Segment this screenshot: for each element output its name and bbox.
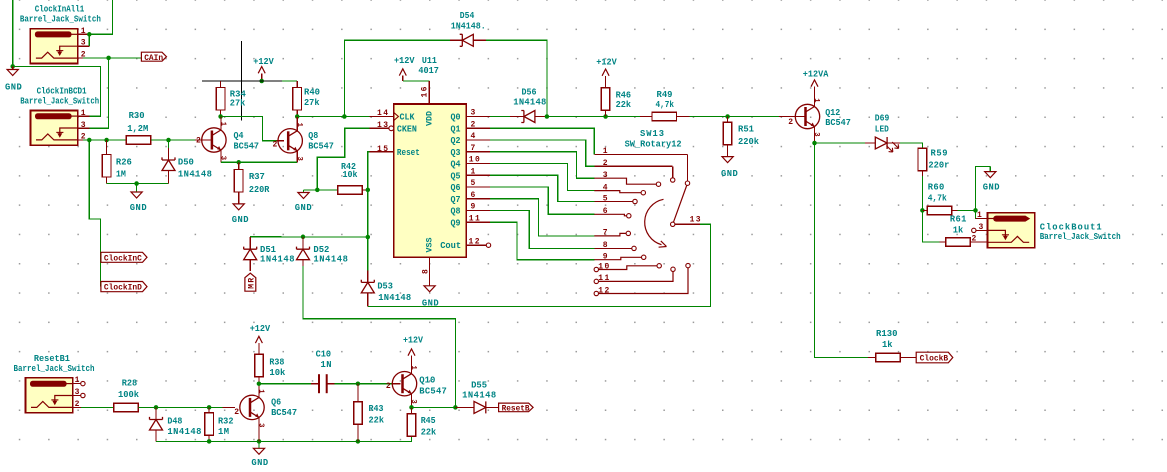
svg-text:R51: R51 — [738, 125, 754, 135]
svg-text:+12V: +12V — [253, 57, 274, 67]
U11 pin 8 VSS — [429, 257, 431, 286]
wire Q9 to SW13 position 9 — [490, 222, 594, 259]
junction R32 top — [207, 405, 212, 410]
svg-text:1M: 1M — [116, 170, 126, 180]
svg-text:VDD: VDD — [425, 111, 435, 126]
resistor R28 100k — [114, 403, 139, 412]
junction Reset/D51/D52 net — [366, 235, 371, 240]
wire LED to R59 — [900, 143, 922, 148]
svg-text:Q8: Q8 — [308, 131, 318, 141]
svg-text:3: 3 — [409, 399, 417, 403]
junction R43 top — [356, 381, 361, 386]
svg-text:D48: D48 — [167, 416, 182, 426]
svg-text:15: 15 — [377, 145, 388, 154]
wire Q4 to SW13 position 4 — [490, 164, 594, 191]
wire up to GND — [976, 166, 991, 210]
resistor R51 220k — [727, 117, 729, 123]
svg-text:1: 1 — [409, 366, 417, 371]
svg-text:MR: MR — [247, 278, 256, 289]
transistor Q10 BC547 — [392, 372, 416, 396]
svg-text:3: 3 — [75, 388, 80, 397]
SW13 contact 6 — [627, 214, 631, 218]
connector ClockInBCD1 Barrel_Jack_Switch J2 — [30, 110, 77, 145]
svg-text:BC547: BC547 — [308, 141, 334, 151]
resistor R60 4,7k — [922, 209, 927, 211]
junction bus Q6 emitter — [257, 439, 262, 444]
connector ClockBout1 Barrel_Jack_Switch J3 — [987, 213, 1034, 248]
junction pin2 b — [104, 138, 109, 143]
wire pin1 riser to top edge — [89, 0, 112, 34]
svg-text:10: 10 — [469, 156, 480, 165]
svg-text:1: 1 — [603, 147, 608, 156]
svg-text:R30: R30 — [129, 111, 145, 121]
junction Q6 collector / C10 — [257, 381, 262, 386]
svg-text:1: 1 — [75, 376, 80, 385]
diode D52 1N4148 — [302, 237, 304, 249]
connector ClockInAll1 Barrel_Jack_Switch J1 — [30, 29, 77, 64]
svg-text:ClockInC: ClockInC — [104, 253, 142, 263]
svg-text:9: 9 — [603, 253, 608, 262]
svg-text:8: 8 — [422, 269, 431, 274]
svg-text:27k: 27k — [304, 98, 320, 108]
svg-text:Barrel_Jack_Switch: Barrel_Jack_Switch — [1040, 232, 1121, 242]
svg-text:R61: R61 — [950, 215, 967, 225]
svg-text:1: 1 — [257, 389, 265, 394]
SW13 pin 2 lead — [594, 165, 672, 167]
svg-text:C10: C10 — [316, 350, 332, 360]
SW13 contact 7 — [626, 231, 630, 235]
ClockInBCD1 pin 2 — [78, 139, 83, 141]
resistor R40 27k — [296, 81, 298, 88]
svg-text:Reset: Reset — [397, 148, 420, 158]
svg-text:BC547: BC547 — [419, 387, 447, 397]
U11 pin 9 Q8 — [466, 210, 490, 212]
ground symbol R26/D50 — [136, 184, 138, 193]
global label ClockB — [916, 352, 953, 363]
wire Q8 to SW13 position 8 — [490, 211, 594, 249]
svg-text:3: 3 — [295, 157, 303, 161]
svg-text:Q2: Q2 — [451, 136, 461, 146]
svg-text:100k: 100k — [118, 390, 140, 400]
junction bus R32 — [207, 439, 212, 444]
svg-text:Q6: Q6 — [451, 183, 461, 193]
svg-text:Q3: Q3 — [451, 148, 461, 158]
resistor R30 1,2M — [126, 136, 151, 145]
svg-text:1: 1 — [977, 211, 982, 220]
ResetB1 pin 1 — [73, 383, 81, 385]
svg-text:SW_Rotary12: SW_Rotary12 — [625, 140, 682, 150]
wire R59 to R60 — [921, 176, 923, 210]
svg-text:11: 11 — [598, 274, 609, 283]
svg-text:ClockBout1: ClockBout1 — [1040, 223, 1102, 233]
svg-text:D69: D69 — [875, 114, 890, 124]
svg-text:GND: GND — [232, 215, 249, 225]
wire Q12 emitter down to R130 — [815, 143, 869, 358]
diode D50 1N4148 — [168, 140, 170, 148]
svg-text:Q4: Q4 — [234, 131, 245, 141]
resistor R38 10k — [255, 354, 264, 377]
svg-text:1N4148: 1N4148 — [167, 427, 201, 437]
svg-text:Q10: Q10 — [419, 376, 435, 386]
svg-text:Q4: Q4 — [451, 160, 462, 170]
SW13 contact 8 — [632, 246, 636, 250]
wire R46 to R49 — [606, 116, 640, 118]
svg-text:R46: R46 — [616, 90, 632, 100]
svg-text:ClockInBCD1: ClockInBCD1 — [37, 86, 87, 96]
resistor R45 22k — [411, 407, 413, 414]
junction R60 right — [973, 208, 978, 213]
svg-text:4: 4 — [603, 183, 608, 192]
wire bottom bus — [156, 436, 412, 441]
U11 pin 16 VDD — [428, 81, 430, 104]
svg-text:1N4148: 1N4148 — [378, 293, 411, 303]
svg-text:13: 13 — [377, 121, 388, 130]
svg-text:R130: R130 — [876, 329, 898, 339]
svg-text:4: 4 — [471, 132, 476, 141]
wire Q12 emitter to LED — [815, 142, 866, 144]
svg-text:Cout: Cout — [440, 241, 461, 251]
resistor R59 220r — [918, 148, 927, 171]
svg-text:3: 3 — [257, 423, 265, 427]
svg-text:1: 1 — [295, 123, 303, 128]
ground symbol ClockBout — [989, 166, 991, 171]
U11 pin 14 CLK — [370, 116, 394, 118]
wire Reset net down to D53 — [367, 190, 369, 237]
wire pins 1-3 tie — [88, 34, 90, 46]
wire Q7 to SW13 position 7 — [490, 199, 594, 236]
svg-text:CLK: CLK — [400, 113, 416, 123]
svg-text:BC547: BC547 — [234, 141, 260, 151]
svg-text:CAIn: CAIn — [144, 53, 163, 63]
svg-text:220r: 220r — [928, 161, 949, 171]
resistor R49 4,7k — [640, 116, 652, 118]
svg-text:ResetB1: ResetB1 — [34, 354, 70, 364]
svg-text:R28: R28 — [122, 378, 138, 388]
U11 pin 6 Q7 — [466, 198, 490, 200]
wire Q1 to SW13 position 1 — [490, 128, 594, 154]
wire R49 to R51/Q12 — [690, 116, 728, 118]
svg-text:R26: R26 — [116, 157, 132, 167]
SW13 pin 5 lead — [594, 201, 632, 203]
svg-text:2: 2 — [788, 118, 793, 127]
global label ClockInC — [101, 252, 147, 262]
U11 pin 4 Q2 — [466, 139, 490, 141]
svg-text:ClockInD: ClockInD — [104, 283, 142, 293]
svg-text:+12V: +12V — [250, 324, 271, 334]
SW13 rotor common pin 13 — [671, 222, 675, 226]
svg-text:Barrel_Jack_Switch: Barrel_Jack_Switch — [20, 96, 99, 106]
wire CKEN to R42/GND junction — [317, 128, 369, 190]
svg-text:27k: 27k — [230, 98, 246, 108]
ClockInBCD1 pin 1 — [78, 115, 90, 117]
wire GND net from top edge — [13, 0, 101, 116]
svg-text:GND: GND — [5, 83, 22, 93]
U11 pin 10 Q4 — [466, 163, 490, 165]
ground symbol R37 — [233, 204, 244, 210]
power +12VA at Q12 — [811, 80, 818, 87]
SW13 pin 9 lead — [594, 257, 641, 259]
wire down to jack pin1 — [975, 210, 977, 219]
wire +12V to pin16 — [403, 80, 430, 82]
junction R59/R60/R61 — [920, 208, 925, 213]
ClockInAll1 pin 2 — [78, 57, 83, 59]
svg-text:1N4148: 1N4148 — [313, 255, 348, 265]
svg-text:22k: 22k — [421, 427, 437, 437]
resistor R43 22k — [357, 384, 359, 402]
svg-text:1: 1 — [812, 98, 820, 103]
svg-text:R49: R49 — [657, 90, 673, 100]
svg-text:Barrel_Jack_Switch: Barrel_Jack_Switch — [20, 15, 101, 25]
svg-text:9: 9 — [471, 203, 476, 212]
svg-text:3: 3 — [219, 156, 227, 160]
SW13 contact 2 — [671, 178, 675, 182]
transistor Q6 BC547 — [240, 395, 264, 419]
SW13 pin 12 lead — [594, 291, 598, 295]
svg-text:22k: 22k — [369, 415, 385, 425]
wire CAIn net down to ClockInBCD1 pin3 — [90, 58, 109, 128]
transistor Q8 BC547 — [278, 129, 302, 153]
SW13 pin 11 lead — [594, 279, 598, 283]
svg-text:R38: R38 — [269, 357, 284, 367]
global label MR — [245, 273, 256, 291]
junction Q10 emitter — [409, 405, 414, 410]
diode D56 1N4148 — [510, 116, 524, 118]
svg-text:3: 3 — [603, 171, 608, 180]
diode D51 1N4148 — [249, 237, 251, 249]
junction R30 right — [166, 138, 171, 143]
svg-text:VSS: VSS — [425, 238, 435, 253]
junction R51 top — [725, 114, 730, 119]
svg-text:10k: 10k — [343, 170, 359, 180]
svg-text:1N4148: 1N4148 — [513, 98, 546, 108]
junction R46 bottom — [603, 114, 608, 119]
SW13 pin 8 lead — [594, 247, 632, 249]
svg-text:14: 14 — [377, 109, 388, 118]
svg-text:1: 1 — [81, 27, 86, 36]
SW13 contact 3 — [656, 182, 660, 186]
wire R26 bottom to D50 bottom — [107, 183, 169, 185]
junction R37 top — [236, 160, 241, 165]
resistor R42 10k — [317, 189, 338, 191]
resistor R37 220R — [238, 162, 240, 169]
U11 pin 12 Cout — [466, 244, 486, 246]
cursor crosshair — [202, 80, 282, 82]
svg-text:1N4148: 1N4148 — [178, 170, 212, 180]
junction bus R43 — [356, 439, 361, 444]
svg-text:D53: D53 — [377, 281, 393, 291]
svg-text:4,7k: 4,7k — [928, 194, 948, 204]
U11 pin 3 Q0 — [466, 116, 490, 118]
junction R40 bottom / Q8 collector — [295, 114, 300, 119]
svg-text:Q8: Q8 — [451, 207, 461, 217]
SW13 contact 4 — [641, 191, 645, 195]
resistor R130 1k — [868, 357, 876, 359]
wire Q3 to SW13 position 3 — [490, 152, 594, 178]
diode D54 1N4148 — [450, 39, 462, 41]
svg-text:GND: GND — [721, 169, 738, 179]
wire pin2 down to ClockInC/ClockInD — [89, 140, 100, 287]
SW13 contact 11 — [671, 267, 675, 271]
svg-text:R43: R43 — [369, 404, 384, 414]
SW13 pin 7 lead — [594, 233, 626, 236]
wire Q5 to SW13 position 5 — [490, 175, 594, 201]
wire Reset pin15 net — [368, 152, 370, 190]
wire D54 right down to Q0 net — [486, 40, 547, 116]
svg-text:GND: GND — [130, 203, 147, 213]
SW13 contact 5 — [633, 199, 637, 203]
U11 pin 2 Q1 — [466, 127, 490, 129]
svg-text:8: 8 — [603, 241, 608, 250]
power +12V at U11 pin16 — [399, 69, 406, 76]
SW13 contact 9 — [642, 255, 646, 259]
global label ResetB — [499, 403, 533, 412]
resistor R32 1M — [208, 407, 210, 412]
svg-text:R60: R60 — [928, 183, 945, 193]
junction D48 top — [154, 405, 159, 410]
svg-text:R59: R59 — [931, 149, 948, 159]
junction D52 branch at D55 — [453, 405, 458, 410]
svg-text:2: 2 — [273, 141, 278, 150]
svg-text:SW13: SW13 — [640, 129, 664, 139]
svg-text:Q7: Q7 — [451, 195, 461, 205]
svg-text:GND: GND — [983, 182, 1000, 192]
svg-text:7: 7 — [603, 229, 608, 238]
diode D53 1N4148 — [367, 270, 369, 282]
ResetB1 pin 3 — [73, 395, 81, 397]
svg-text:3: 3 — [979, 223, 984, 232]
svg-text:D50: D50 — [178, 157, 194, 167]
power +12V at Q10 — [408, 349, 415, 356]
SW13 contact 1 — [685, 181, 689, 185]
svg-text:4017: 4017 — [418, 66, 439, 76]
svg-text:BC547: BC547 — [271, 408, 297, 418]
wire D56 to R46 — [547, 116, 606, 118]
svg-text:220k: 220k — [738, 137, 760, 147]
svg-text:220R: 220R — [249, 185, 270, 195]
svg-text:1N4148: 1N4148 — [260, 255, 295, 265]
ClockBout1 pin 3 — [976, 229, 987, 231]
svg-text:ClockB: ClockB — [920, 354, 949, 364]
junction CAIn net — [106, 56, 111, 61]
wire Q4 collector to Q8 base — [221, 117, 277, 141]
svg-text:D51: D51 — [260, 245, 276, 255]
svg-text:2: 2 — [234, 408, 239, 417]
resistor R61 1k — [939, 241, 945, 243]
ground symbol U11 VSS — [424, 286, 435, 292]
SW13 pin 1 lead — [594, 153, 687, 155]
svg-text:ResetB: ResetB — [502, 403, 530, 413]
junction GND wire — [10, 64, 15, 69]
svg-text:+12VA: +12VA — [803, 69, 829, 79]
svg-text:GND: GND — [251, 458, 268, 467]
power +12V at R46 — [602, 69, 609, 76]
svg-text:1M: 1M — [218, 427, 229, 437]
svg-text:12: 12 — [598, 286, 609, 295]
wire Reset net to D53 — [367, 237, 369, 270]
diode D69 LED — [865, 142, 875, 144]
svg-text:1,2M: 1,2M — [127, 124, 148, 134]
svg-text:5: 5 — [471, 179, 476, 188]
svg-text:22k: 22k — [616, 100, 632, 110]
junction pin1 — [87, 32, 92, 37]
wire emitter bus Q4-Q8 — [221, 161, 297, 163]
diode D55 1N4148 — [455, 406, 474, 408]
svg-text:2: 2 — [386, 382, 391, 391]
wire junction to GND stub — [304, 189, 318, 191]
wire D53 to rotary common — [368, 224, 711, 306]
wire pin2 to R30 — [83, 139, 126, 141]
U11 pin 15 Reset — [370, 151, 394, 153]
svg-text:11: 11 — [469, 214, 480, 223]
svg-text:Q0: Q0 — [451, 113, 461, 123]
junction GND R26/D50 — [134, 181, 139, 186]
diode D48 1N4148 — [155, 407, 157, 419]
wire R30 to Q4 base — [151, 139, 202, 141]
svg-text:Q1: Q1 — [451, 124, 461, 134]
svg-text:3: 3 — [81, 121, 86, 130]
wire CLK row to pin 14 — [297, 116, 369, 118]
SW13 rotor arc arrow — [645, 199, 664, 244]
svg-text:GND: GND — [295, 203, 312, 213]
SW13 pin 6 lead — [594, 214, 626, 216]
svg-text:10: 10 — [598, 262, 609, 271]
junction R42 left — [315, 188, 320, 193]
svg-text:U11: U11 — [422, 56, 437, 66]
global label ClockInD — [101, 282, 147, 292]
svg-text:2: 2 — [603, 159, 608, 168]
wire Q10 emitter to D55 — [412, 406, 456, 408]
SW13 pin 10 lead — [594, 267, 598, 271]
svg-text:D52: D52 — [313, 245, 329, 255]
svg-text:3: 3 — [812, 132, 820, 136]
transistor Q12 BC547 — [779, 116, 805, 118]
wire D52 to ResetB net — [303, 266, 455, 407]
junction D54/D56 — [545, 114, 550, 119]
junction R42 right — [366, 188, 371, 193]
svg-text:12: 12 — [469, 238, 480, 247]
junction Q4 collector — [218, 114, 223, 119]
svg-text:R37: R37 — [249, 172, 265, 182]
svg-text:R32: R32 — [218, 416, 234, 426]
U11 pin 13 CKEN — [370, 127, 389, 129]
svg-text:6: 6 — [603, 207, 608, 216]
wire R59 junction down to R61 — [922, 210, 939, 242]
capacitor C10 1N — [311, 383, 319, 385]
svg-text:D56: D56 — [522, 88, 537, 98]
wire D51-D52 top rail — [250, 236, 368, 238]
IC U11 4017 — [394, 104, 467, 257]
junction Q12 emitter — [812, 141, 817, 146]
svg-text:Barrel_Jack_Switch: Barrel_Jack_Switch — [14, 364, 95, 374]
ClockBout1 pin 1 — [976, 218, 988, 220]
svg-text:10k: 10k — [269, 368, 286, 378]
svg-text:1N4148: 1N4148 — [462, 390, 496, 400]
svg-text:5: 5 — [603, 194, 608, 203]
SW13 pin 3 lead — [594, 178, 656, 184]
SW13 contact 10 — [657, 264, 661, 268]
svg-text:D55: D55 — [471, 380, 487, 390]
svg-text:2: 2 — [196, 137, 201, 146]
ResetB1 pin 2 — [73, 406, 81, 408]
wire R60 right to jack pin1 node — [958, 209, 976, 211]
svg-text:Q5: Q5 — [451, 171, 461, 181]
wire Q0 to D56 — [490, 116, 510, 118]
svg-text:+12V: +12V — [394, 56, 415, 66]
svg-text:16: 16 — [421, 86, 430, 97]
svg-text:13: 13 — [690, 216, 701, 225]
svg-text:3: 3 — [81, 39, 86, 48]
svg-text:4,7k: 4,7k — [656, 100, 675, 110]
